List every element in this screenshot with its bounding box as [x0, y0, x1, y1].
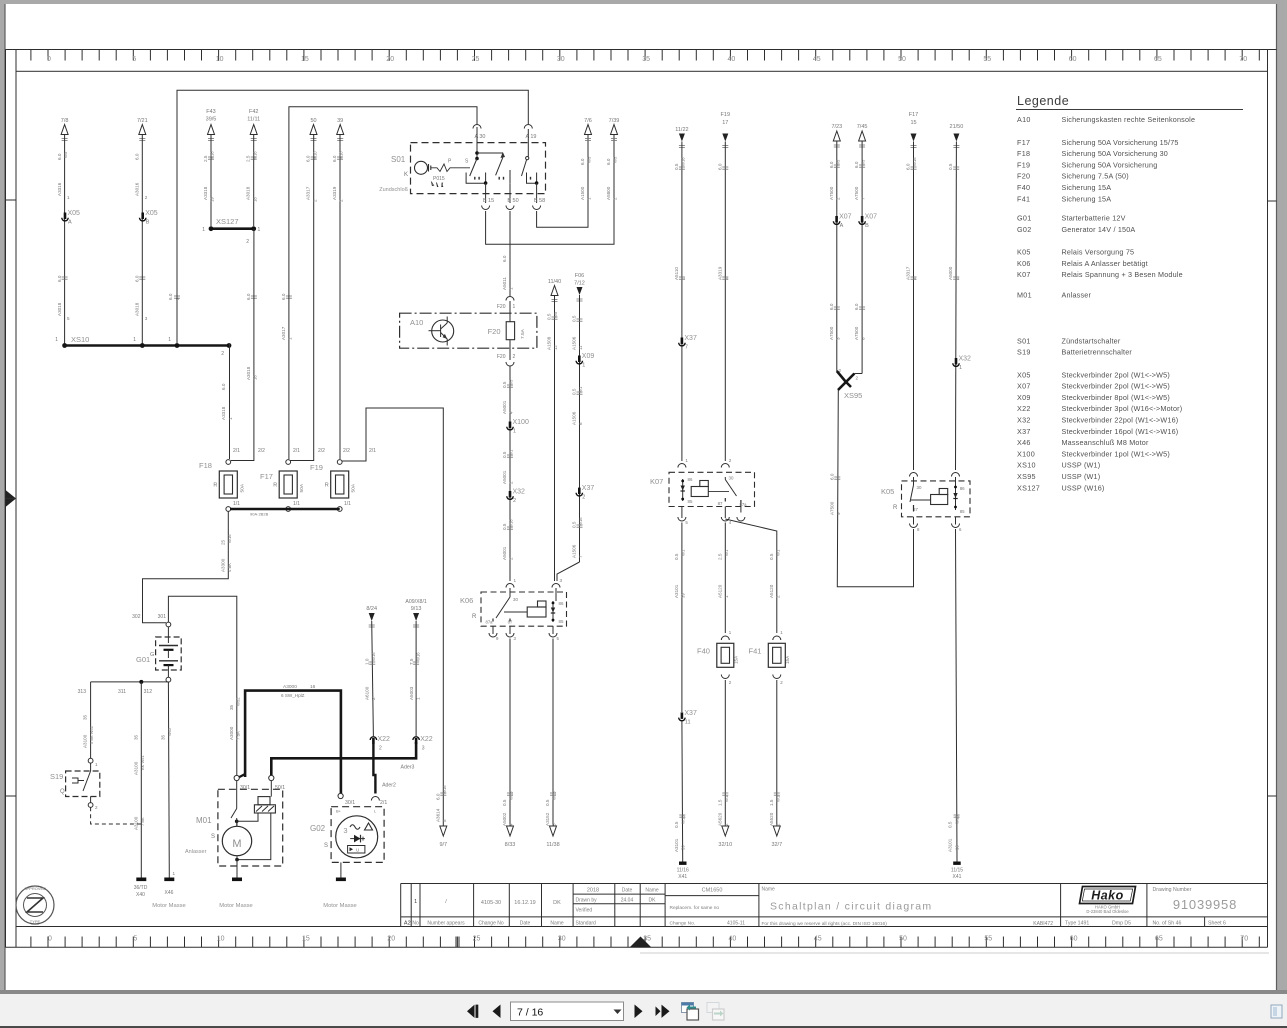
svg-text:Steckverbinder 3pol (W16<->Mot: Steckverbinder 3pol (W16<->Motor): [1062, 404, 1183, 413]
svg-text:A3101: A3101: [674, 584, 679, 598]
connector X05 pin A: [64, 213, 67, 220]
svg-text:W16: W16: [681, 157, 686, 166]
svg-text:0.5: 0.5: [948, 821, 953, 828]
connector X32 pin 2: [509, 491, 512, 498]
svg-text:Change No.: Change No.: [670, 921, 696, 927]
svg-text:A5110: A5110: [674, 267, 679, 280]
svg-text:16: 16: [253, 375, 258, 380]
terminal arc K06-3: [552, 584, 560, 588]
svg-text:0.5: 0.5: [502, 381, 507, 388]
terminal arc B50: [506, 206, 514, 210]
svg-text:A7500: A7500: [829, 326, 834, 340]
svg-text:A10: A10: [410, 318, 423, 327]
svg-text:2: 2: [509, 557, 514, 560]
svg-text:W16: W16: [681, 815, 686, 824]
terminal B50: [509, 183, 511, 203]
svg-text:Sheet 6: Sheet 6: [1208, 921, 1226, 927]
svg-text:X22: X22: [378, 736, 391, 743]
junction XS127 right: [251, 226, 256, 231]
svg-text:Standard: Standard: [576, 921, 597, 927]
svg-text:A3316: A3316: [57, 182, 62, 196]
wire G01 negative distribution: [91, 681, 169, 683]
S01 contact bracket 2: [498, 177, 500, 180]
svg-text:313: 313: [78, 689, 87, 695]
svg-text:1: 1: [582, 363, 585, 369]
svg-text:2: 2: [221, 351, 224, 357]
M01 switch arm: [231, 809, 237, 819]
svg-text:87a: 87a: [486, 620, 494, 625]
toolbar prev page button: [493, 1005, 501, 1019]
svg-text:XS127: XS127: [216, 217, 239, 226]
svg-text:F06: F06: [575, 273, 584, 279]
svg-text:XS95: XS95: [1017, 472, 1036, 481]
svg-text:USSP (W1): USSP (W1): [1062, 472, 1101, 481]
toolbar sidebar icon right: [1271, 1005, 1282, 1018]
svg-text:2.5: 2.5: [717, 553, 722, 560]
svg-text:0.5: 0.5: [769, 553, 774, 560]
F18 bottom terminal 1/1: [226, 507, 231, 512]
svg-text:X32: X32: [1017, 416, 1031, 425]
svg-text:F17: F17: [260, 472, 273, 481]
svg-text:A7500: A7500: [854, 326, 859, 340]
svg-text:Sicherungskasten rechte Seiten: Sicherungskasten rechte Seitenkonsole: [1062, 115, 1196, 124]
svg-text:A 30: A 30: [474, 134, 485, 140]
svg-text:CM1650: CM1650: [702, 888, 723, 894]
svg-text:For this drawing we reserve al: For this drawing we reserve all rights (…: [762, 921, 888, 927]
terminal arc K06-87a: [489, 633, 497, 637]
M01 junction: [235, 820, 239, 824]
wire jog into K06 86: [557, 562, 580, 581]
svg-text:X37: X37: [582, 485, 595, 492]
svg-text:2: 2: [379, 746, 382, 752]
svg-text:40: 40: [729, 936, 737, 943]
svg-text:Motor Masse: Motor Masse: [219, 903, 253, 909]
wire 50 down to fuse F17: [290, 135, 314, 461]
svg-text:2: 2: [95, 805, 98, 810]
svg-text:A3017: A3017: [281, 326, 286, 340]
svg-text:A3000: A3000: [283, 684, 297, 690]
svg-text:F43: F43: [206, 109, 215, 115]
wire X05-A feeder: [64, 135, 66, 345]
svg-text:3: 3: [560, 578, 563, 583]
K05 coil: [931, 495, 948, 505]
svg-text:16: 16: [310, 684, 316, 690]
svg-text:F40: F40: [1017, 183, 1030, 192]
svg-text:2/1: 2/1: [369, 448, 376, 454]
svg-text:6 SW_HplZ: 6 SW_HplZ: [281, 693, 305, 698]
XS95 cross arm 1: [837, 371, 846, 382]
svg-text:USSP (W16): USSP (W16): [1062, 483, 1105, 492]
svg-text:85: 85: [559, 619, 564, 624]
svg-text:No. of Sh 46: No. of Sh 46: [1153, 921, 1182, 927]
svg-text:X37: X37: [684, 335, 697, 342]
svg-text:D-23840 Bad Oldesloe: D-23840 Bad Oldesloe: [1086, 909, 1129, 914]
svg-text:A3317: A3317: [906, 266, 911, 280]
svg-text:65: 65: [1155, 936, 1163, 943]
svg-text:TYPE: TYPE: [30, 919, 41, 924]
svg-text:0.5: 0.5: [502, 799, 507, 806]
svg-text:5: 5: [442, 819, 447, 822]
svg-text:1: 1: [414, 899, 417, 905]
svg-text:G: G: [150, 652, 154, 658]
arrow up 7/8: [61, 125, 68, 135]
svg-text:A3018: A3018: [57, 302, 62, 316]
toolbar next page button: [635, 1005, 643, 1019]
toolbar last page button: [656, 1005, 670, 1018]
junction XS10 bus corner: [227, 343, 232, 348]
G01 dashed box: [156, 637, 182, 670]
svg-text:Ader3: Ader3: [401, 765, 415, 771]
wire starter 50 bus Ader3: [271, 742, 416, 777]
A10 collector stroke: [441, 323, 448, 329]
svg-text:G02: G02: [1017, 225, 1032, 234]
connector X37 pin 2: [578, 488, 581, 495]
wire F19/17 to K07: [724, 142, 726, 462]
svg-text:11/11: 11/11: [247, 117, 260, 123]
S01 switch arm 2: [496, 157, 503, 175]
svg-text:Sicherung 7.5A (50): Sicherung 7.5A (50): [1062, 172, 1129, 181]
svg-text:1: 1: [415, 697, 420, 700]
arrow up 50: [310, 125, 317, 135]
svg-text:A1506: A1506: [572, 544, 577, 558]
G01 plate short 2: [164, 664, 174, 666]
svg-text:A3300: A3300: [220, 558, 225, 572]
F20 fuse body: [506, 322, 514, 340]
termination bar 11/15 X41: [953, 862, 961, 865]
svg-text:X05: X05: [1017, 370, 1031, 379]
svg-text:0.5: 0.5: [547, 313, 552, 320]
svg-text:6.0: 6.0: [246, 293, 251, 300]
svg-text:A3319: A3319: [717, 266, 722, 280]
svg-text:16: 16: [955, 845, 960, 850]
svg-text:A5002: A5002: [502, 812, 507, 826]
terminal arc K06-1: [506, 584, 514, 588]
wire A3000 16 bus: [245, 691, 341, 794]
left band centre arrow: [6, 490, 17, 507]
svg-text:F20: F20: [497, 354, 506, 360]
svg-text:15: 15: [301, 56, 309, 63]
svg-text:X46: X46: [1017, 438, 1031, 447]
svg-text:6.0: 6.0: [57, 275, 62, 282]
svg-text:S: S: [211, 834, 215, 840]
wire to S01 terminal A19: [177, 90, 528, 344]
svg-text:50/1: 50/1: [275, 785, 285, 791]
svg-text:A3100: A3100: [133, 816, 138, 830]
svg-text:F17: F17: [909, 112, 918, 118]
K07 link line: [708, 491, 729, 493]
wire F40 to arrow 32/10: [724, 680, 726, 827]
svg-text:25: 25: [473, 936, 481, 943]
svg-text:Drawing Number: Drawing Number: [1153, 887, 1192, 893]
toolbar first page button: [467, 1005, 478, 1018]
svg-text:Sicherung 15A: Sicherung 15A: [1062, 183, 1112, 192]
svg-text:85: 85: [960, 509, 965, 514]
title block: [401, 884, 1268, 927]
wire B58 to arrow 7/6: [537, 135, 588, 228]
svg-text:B: B: [865, 223, 869, 229]
svg-text:A3317: A3317: [306, 186, 311, 200]
svg-text:0.5: 0.5: [502, 523, 507, 530]
svg-text:Masseanschluß M8 Motor: Masseanschluß M8 Motor: [1062, 438, 1149, 447]
G02 diode symbol: [350, 838, 365, 840]
S19 terminal 2: [88, 803, 93, 808]
svg-text:Steckverbinder 2pol (W1<->W5): Steckverbinder 2pol (W1<->W5): [1062, 382, 1170, 391]
svg-text:2: 2: [145, 195, 148, 200]
svg-text:W16: W16: [578, 517, 583, 526]
terminal B15: [485, 183, 487, 203]
svg-text:Steckverbinder 2pol (W1<->W5): Steckverbinder 2pol (W1<->W5): [1062, 370, 1170, 379]
svg-text:A3100: A3100: [83, 734, 88, 748]
wire F42 to XS127: [253, 135, 255, 227]
wire X22-2 to G02 terminal Ader2: [373, 744, 375, 794]
svg-text:19: 19: [210, 197, 215, 202]
svg-text:G01: G01: [1017, 214, 1032, 223]
svg-text:6.0: 6.0: [717, 163, 722, 170]
svg-text:M01: M01: [196, 816, 212, 825]
svg-text:12: 12: [553, 345, 558, 350]
svg-text:30: 30: [729, 476, 734, 481]
svg-text:2/1: 2/1: [293, 448, 300, 454]
svg-text:0.5: 0.5: [502, 451, 507, 458]
svg-text:50: 50: [899, 936, 907, 943]
svg-text:Relais Versorgung 75: Relais Versorgung 75: [1062, 248, 1135, 257]
svg-text:W1: W1: [724, 795, 729, 802]
svg-text:1/1: 1/1: [233, 501, 240, 507]
wire 11/22 to K07: [681, 142, 683, 462]
K07 coil: [691, 487, 708, 497]
G01 plate short: [164, 649, 174, 651]
svg-text:35: 35: [83, 714, 88, 720]
svg-text:2: 2: [729, 458, 732, 463]
wire F20 to X100/X32/K06: [509, 366, 511, 581]
svg-text:86: 86: [960, 486, 965, 491]
svg-text:1.5: 1.5: [717, 799, 722, 806]
S01 switch arm 3: [522, 160, 527, 176]
svg-text:6.0: 6.0: [332, 155, 337, 162]
svg-text:2: 2: [246, 239, 249, 245]
svg-text:A3614: A3614: [435, 808, 440, 822]
svg-text:35: 35: [133, 734, 138, 740]
svg-text:X05: X05: [145, 210, 158, 217]
svg-text:0.5: 0.5: [674, 821, 679, 828]
svg-text:25: 25: [472, 56, 480, 63]
svg-text:1: 1: [685, 458, 688, 463]
M01 dashed box: [218, 789, 283, 866]
svg-text:7: 7: [578, 555, 583, 558]
svg-text:A1500: A1500: [580, 186, 585, 200]
svg-text:7 BK: 7 BK: [140, 817, 145, 826]
svg-text:S01: S01: [1017, 336, 1031, 345]
svg-text:W16: W16: [509, 519, 514, 528]
svg-text:A3016: A3016: [135, 182, 140, 196]
svg-text:A5120: A5120: [769, 584, 774, 598]
K05 link line: [911, 499, 931, 501]
svg-text:3: 3: [343, 826, 347, 835]
band corner verticals: [15, 50, 17, 72]
svg-text:Starterbatterie 12V: Starterbatterie 12V: [1062, 214, 1126, 223]
viewer toolbar: [0, 990, 1287, 994]
svg-text:X32: X32: [959, 356, 972, 363]
svg-text:86: 86: [688, 477, 693, 482]
svg-text:6.0: 6.0: [135, 153, 140, 160]
arrow up 11/40: [551, 286, 558, 296]
G02 delta symbol: [365, 823, 373, 830]
K05 suppression diode: [955, 477, 957, 510]
svg-text:Drawn by: Drawn by: [576, 898, 598, 904]
G02 circle: [336, 816, 378, 858]
svg-text:F42: F42: [249, 109, 258, 115]
svg-text:7.5: 7.5: [409, 658, 414, 665]
svg-text:A09/X8/1: A09/X8/1: [405, 599, 426, 605]
terminal arc K05-86: [952, 473, 960, 477]
svg-text:2.5: 2.5: [203, 155, 208, 162]
svg-text:Anlasser: Anlasser: [185, 849, 207, 855]
svg-text:50A: 50A: [239, 483, 245, 492]
svg-text:W5: W5: [509, 379, 514, 386]
svg-text:6.0: 6.0: [854, 303, 859, 310]
svg-text:X40: X40: [136, 892, 145, 898]
arrow down 8/24: [369, 613, 375, 621]
svg-text:Batterietrennschalter: Batterietrennschalter: [1062, 348, 1133, 357]
svg-text:F18: F18: [199, 461, 212, 470]
svg-text:1: 1: [228, 417, 233, 420]
svg-text:6.0: 6.0: [906, 163, 911, 170]
svg-text:A5011: A5011: [502, 277, 507, 290]
svg-text:B 15: B 15: [483, 198, 494, 204]
sheet cut line lower right: [640, 952, 1269, 954]
wire K06-87 to arrow 8/33: [509, 639, 511, 827]
bottom band double mark: [455, 937, 457, 948]
wire A19 into S01: [527, 129, 529, 157]
ground bar X46: [164, 878, 174, 882]
svg-text:6.0: 6.0: [854, 161, 859, 168]
svg-text:85: 85: [688, 499, 693, 504]
G02 terminal B+ 30/1: [338, 793, 343, 798]
terminal arc K05-8: [910, 524, 918, 528]
svg-text:Relais Spannung + 3 Besen Modu: Relais Spannung + 3 Besen Module: [1062, 270, 1183, 279]
svg-text:15A: 15A: [734, 655, 739, 664]
svg-text:Zündstartschalter: Zündstartschalter: [1062, 336, 1121, 345]
svg-text:S01: S01: [391, 155, 406, 164]
S01 position arrows: [431, 181, 444, 187]
svg-text:1: 1: [95, 762, 98, 767]
svg-text:7.5A: 7.5A: [520, 328, 526, 339]
svg-text:0.5: 0.5: [572, 521, 577, 528]
svg-text:F18: F18: [1017, 149, 1030, 158]
svg-text:11: 11: [685, 719, 691, 725]
dashed link S19 to ground wire: [91, 807, 142, 824]
svg-text:50: 50: [898, 56, 906, 63]
svg-text:86: 86: [559, 601, 564, 606]
svg-text:Zundschloß: Zundschloß: [379, 187, 408, 193]
svg-text:15: 15: [910, 120, 916, 126]
svg-text:XS127: XS127: [1017, 483, 1040, 492]
svg-text:5 BK W51: 5 BK W51: [89, 725, 94, 744]
svg-text:39: 39: [681, 845, 686, 850]
approval stamp Z: [16, 886, 54, 924]
svg-text:21/50: 21/50: [950, 124, 964, 130]
svg-text:Dmp D5: Dmp D5: [1112, 921, 1131, 927]
K05 switch arm: [910, 485, 914, 502]
K06 relay box: [481, 592, 567, 626]
svg-text:S19: S19: [50, 772, 63, 781]
wire F17/15 to K05: [913, 142, 915, 471]
terminal arc F20-1: [506, 297, 514, 301]
terminal arc B15: [482, 206, 490, 210]
svg-text:X100: X100: [513, 419, 529, 426]
svg-text:0.5: 0.5: [572, 315, 577, 322]
svg-text:6.0: 6.0: [435, 793, 440, 800]
svg-text:A3000: A3000: [229, 726, 234, 740]
S01 mechanical linkage: [431, 164, 470, 172]
svg-text:X46: X46: [165, 890, 174, 896]
svg-text:50A: 50A: [351, 483, 357, 492]
svg-text:5: 5: [133, 936, 137, 943]
svg-text:35: 35: [642, 56, 650, 63]
G02 dashed box: [331, 807, 384, 863]
svg-text:P015: P015: [433, 176, 445, 182]
svg-text:Steckverbinder 8pol (W1<->W5): Steckverbinder 8pol (W1<->W5): [1062, 393, 1170, 402]
svg-text:6.0: 6.0: [580, 158, 585, 165]
svg-text:K06: K06: [1017, 259, 1031, 268]
terminal arc B58: [533, 206, 541, 210]
S01 key symbol: [415, 161, 428, 174]
svg-text:A3018: A3018: [135, 302, 140, 316]
S19 dashed box: [66, 771, 100, 797]
arrow down 32/7: [773, 826, 780, 836]
svg-text:1: 1: [173, 871, 176, 876]
svg-text:30: 30: [513, 597, 518, 602]
svg-text:W52: W52: [167, 727, 172, 736]
svg-text:K05: K05: [881, 487, 894, 496]
svg-text:W1: W1: [775, 795, 780, 802]
svg-text:17: 17: [722, 120, 728, 126]
svg-text:W1: W1: [775, 549, 780, 556]
wire X07-A to XS95: [836, 141, 838, 371]
svg-text:40: 40: [728, 56, 736, 63]
svg-text:1: 1: [55, 337, 58, 343]
svg-text:X37: X37: [1017, 427, 1031, 436]
svg-text:W16: W16: [371, 652, 376, 661]
svg-text:X05: X05: [68, 210, 81, 217]
toolbar previous view icon: [682, 1003, 699, 1021]
svg-text:R: R: [273, 483, 277, 489]
svg-text:W16: W16: [227, 534, 232, 543]
svg-text:50A: 50A: [299, 483, 305, 492]
terminal arc F20-2: [506, 362, 514, 366]
wire K06-85 to arrow 11/38: [552, 639, 554, 827]
svg-text:R: R: [213, 483, 217, 489]
svg-text:2: 2: [835, 197, 840, 200]
svg-text:Sicherung 50A Vorsicherung 15/: Sicherung 50A Vorsicherung 15/75: [1062, 138, 1179, 147]
svg-text:Steckverbinder 16pol (W1<->W16: Steckverbinder 16pol (W1<->W16): [1062, 427, 1179, 436]
svg-text:W1: W1: [578, 386, 583, 393]
svg-text:11/16: 11/16: [677, 868, 689, 874]
svg-text:Change No: Change No: [478, 921, 504, 927]
arrow up F42 11/11: [250, 125, 257, 135]
svg-text:2: 2: [312, 199, 317, 202]
svg-text:1: 1: [258, 227, 261, 233]
svg-text:Hako: Hako: [1091, 889, 1124, 903]
arrow up 39: [337, 125, 344, 135]
svg-text:XS10: XS10: [1017, 461, 1036, 470]
connector X100 pin 1: [509, 422, 512, 429]
svg-text:F20: F20: [488, 327, 501, 336]
A10 breaker symbol: [432, 320, 454, 342]
terminal arc K06-85: [549, 633, 557, 637]
svg-text:20: 20: [387, 936, 395, 943]
svg-text:A5001: A5001: [502, 400, 507, 414]
